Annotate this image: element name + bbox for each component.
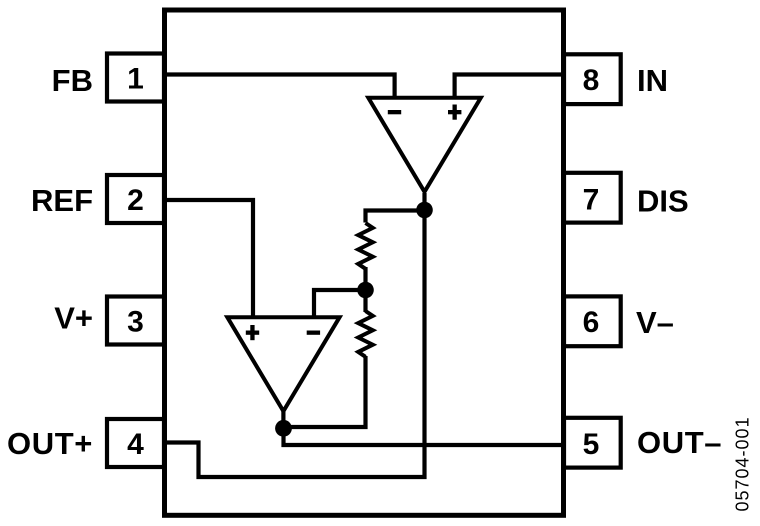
IC body outline (165, 10, 564, 515)
node: top op-amp output junction (416, 193, 433, 218)
wire pin5 OUT- to bottom op-amp output node (284, 426, 563, 445)
wire top node to resistor R1 (366, 211, 425, 223)
node: resistor divider midpoint (357, 282, 374, 299)
wire pin2 REF to bottom op-amp non-inverting input (166, 200, 253, 320)
pin 5 box (564, 418, 621, 468)
U2 plus label (246, 325, 259, 340)
U1 minus label (388, 110, 401, 114)
op-amp U2 (bottom comparator) (227, 317, 339, 411)
svg-text:V–: V– (636, 305, 674, 340)
pin 7 box (564, 173, 621, 223)
svg-text:OUT–: OUT– (637, 425, 722, 460)
wire R1 to middle node (363, 267, 367, 290)
svg-text:8: 8 (583, 64, 600, 97)
op-amp U1 (top comparator) (368, 98, 481, 192)
svg-text:3: 3 (127, 306, 144, 339)
svg-text:6: 6 (583, 306, 600, 339)
wire middle node to resistor R2 (363, 290, 367, 312)
svg-text:IN: IN (637, 63, 668, 98)
resistor R1 (358, 223, 373, 269)
pin 3 box (107, 297, 164, 345)
svg-text:7: 7 (583, 184, 600, 217)
wire pin1 FB to top op-amp inverting input (166, 75, 395, 101)
pin 1 box (107, 54, 164, 102)
wire middle node to bottom op-amp inverting input (314, 290, 366, 320)
U2 minus label (307, 331, 320, 335)
svg-text:5: 5 (583, 428, 600, 461)
svg-text:FB: FB (52, 63, 93, 98)
svg-text:05704-001: 05704-001 (732, 416, 752, 511)
svg-text:OUT+: OUT+ (7, 426, 93, 461)
svg-text:REF: REF (31, 183, 93, 218)
pin 2 box (107, 175, 164, 223)
pin 8 box (564, 54, 621, 104)
svg-text:DIS: DIS (637, 183, 689, 218)
wire R2 down and left to bottom op-amp output node (284, 356, 366, 427)
wire pin8 IN to top op-amp non-inverting input (455, 75, 562, 101)
svg-text:2: 2 (127, 184, 144, 217)
pin 6 box (564, 296, 621, 346)
svg-text:1: 1 (127, 63, 144, 96)
U1 plus label (448, 105, 461, 120)
wire pin4 OUT+ up to top op-amp output node (166, 212, 425, 477)
svg-text:4: 4 (127, 428, 144, 461)
resistor R2 (358, 311, 373, 357)
svg-text:V+: V+ (54, 300, 93, 335)
pin 4 box (107, 419, 164, 467)
node: bottom op-amp output junction (275, 408, 292, 437)
